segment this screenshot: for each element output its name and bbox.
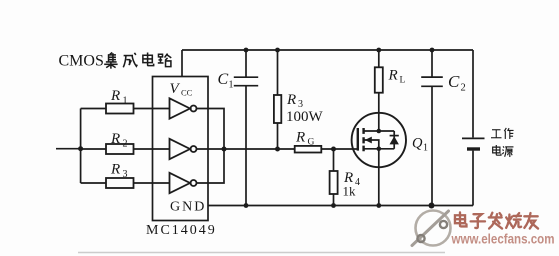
svg-text:2: 2	[461, 83, 466, 94]
svg-text:1: 1	[123, 96, 128, 107]
svg-text:R: R	[110, 131, 120, 147]
svg-text:R: R	[110, 88, 120, 104]
svg-text:MC14049: MC14049	[146, 223, 217, 238]
svg-text:1: 1	[229, 80, 234, 91]
svg-text:1k: 1k	[343, 184, 357, 199]
svg-text:C: C	[218, 71, 229, 88]
svg-text:R: R	[110, 162, 120, 178]
svg-text:Q: Q	[412, 136, 423, 152]
svg-text:R: R	[295, 130, 305, 146]
svg-text:R: R	[388, 68, 398, 84]
svg-text:R: R	[286, 92, 296, 108]
svg-text:1: 1	[423, 143, 428, 154]
svg-text:L: L	[400, 76, 406, 86]
svg-text:3: 3	[123, 169, 128, 180]
svg-text:2: 2	[123, 139, 128, 150]
svg-text:CMOS: CMOS	[59, 53, 104, 70]
svg-text:G: G	[308, 138, 315, 148]
svg-text:C: C	[448, 72, 460, 91]
svg-text:4: 4	[355, 177, 360, 188]
svg-text:www.elecfans.com: www.elecfans.com	[451, 232, 555, 247]
svg-text:GND: GND	[170, 200, 206, 215]
svg-text:100W: 100W	[286, 109, 324, 125]
svg-text:CC: CC	[181, 88, 193, 98]
